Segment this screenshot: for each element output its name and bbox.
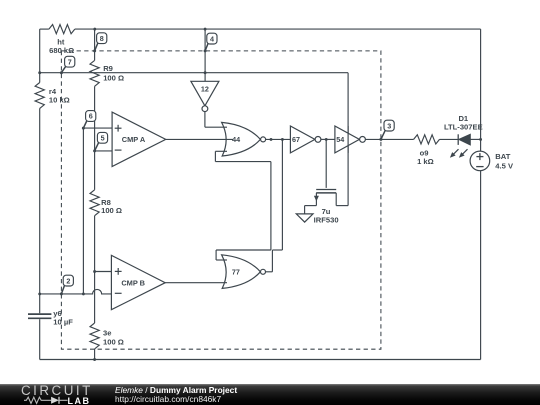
node 6 tag — [82, 111, 96, 130]
junction top rail / inverter-12 input — [204, 28, 207, 31]
wire CMP B inverting input y=293.9 with hop over x=94.6 — [40, 289, 112, 294]
wire CMP A output to gate 44 — [166, 138, 233, 140]
svg-text:44: 44 — [232, 135, 240, 144]
wire inverter 54 output to resistor o9 — [365, 138, 413, 140]
wire node-8 branch x=94.6 (R9 top lead) — [94, 29, 96, 60]
resistor R8 100 ohm (vertical) — [90, 190, 99, 216]
resistor R9 100 ohm (vertical, crosses y=72.7 rail) — [90, 60, 99, 86]
CMP B minus input marker — [115, 292, 122, 294]
wire gate-44 lower input stub y=151.3 — [215, 150, 227, 152]
junction gate-44 output net dot A — [270, 138, 273, 141]
wire LED D1 to right rail — [470, 138, 480, 140]
svg-text:12: 12 — [201, 84, 209, 93]
wire 3e to bottom rail x=94.6 — [94, 349, 96, 360]
node 2 tag — [60, 275, 74, 295]
svg-text:R9: R9 — [103, 64, 113, 73]
battery minus marker — [476, 166, 483, 168]
inverter 54 — [335, 126, 360, 153]
junction left rail / y=72.7 rail — [38, 71, 41, 74]
wire CMP A noninverting input y=128.1 — [83, 127, 112, 129]
dashed module boundary box — [61, 51, 381, 349]
CMP A plus input marker — [115, 125, 122, 132]
junction inverter-67 output / MOSFET gate — [325, 138, 328, 141]
junction y=72.7 rail / inverter-12 input — [204, 71, 207, 74]
svg-text:3e: 3e — [103, 329, 111, 338]
resistor r4 10k (left vertical) — [35, 83, 44, 109]
wire CMP B noninverting input y=271.5 — [95, 271, 112, 273]
resistor 3e 100 ohm (vertical) — [90, 323, 99, 349]
svg-text:680 kΩ: 680 kΩ — [49, 46, 74, 55]
wire inverter 67 to inverter 54 — [321, 138, 335, 140]
svg-text:10 µF: 10 µF — [53, 317, 73, 326]
svg-text:100 Ω: 100 Ω — [103, 338, 124, 347]
wire bottom rail y=359.5 — [40, 359, 481, 361]
resistor o9 1k (horizontal) — [414, 135, 440, 144]
svg-text:100 Ω: 100 Ω — [101, 206, 122, 215]
wire right rail x=480.6 — [480, 29, 482, 359]
wire gate output to MOSFET gate x=326.2 — [325, 139, 327, 188]
wire left rail x=39.7 — [39, 29, 41, 359]
wire inverter-12 input x=205.1 — [204, 29, 206, 81]
CMP A minus input marker — [115, 149, 122, 151]
wire feedback from gate-44 input: down-right-down to gate-77 region — [215, 151, 271, 260]
resistor ht 680k (top horizontal) — [49, 25, 75, 34]
junction left rail / CMP B inverting net — [38, 292, 41, 295]
wire R9 to R8 segment x=94.6 — [94, 86, 96, 190]
wire MOSFET drain rail crossing inverter 54 — [347, 126, 349, 153]
inverter 54 output bubble — [360, 137, 366, 143]
wire R8 to 3e segment x=94.6 — [94, 216, 96, 323]
transistor Q1 channel bar — [316, 192, 336, 194]
gate 77 output bubble — [261, 269, 266, 274]
capacitor y6 10uF — [28, 314, 51, 318]
LED emission arrow 2 — [459, 149, 468, 158]
op-amp CMP B — [111, 255, 165, 309]
junction node-6 vertical / CMP B inverting net — [82, 292, 85, 295]
svg-text:CMP A: CMP A — [122, 135, 146, 144]
inverter 67 output bubble — [315, 137, 321, 143]
inverter 12 output bubble — [202, 106, 208, 112]
svg-text:3: 3 — [387, 121, 391, 130]
node 7 tag — [60, 56, 75, 74]
ground symbol — [296, 214, 313, 222]
wire second rail y=72.7 — [40, 72, 348, 74]
LED D1 LTL-307EE (cathode bar, pointing left) — [458, 134, 470, 145]
junction 3e / bottom rail — [93, 358, 96, 361]
inverter 67 — [290, 126, 315, 153]
wire MOSFET source to ground — [305, 193, 317, 214]
node 8 tag — [93, 33, 107, 53]
svg-text:100 Ω: 100 Ω — [103, 73, 124, 82]
svg-text:1 kΩ: 1 kΩ — [417, 157, 434, 166]
svg-text:7: 7 — [68, 57, 72, 66]
svg-text:BAT: BAT — [495, 152, 510, 161]
inverter 12 (pointing down) — [191, 81, 219, 106]
battery plus marker — [476, 153, 483, 160]
wire inverter-12 output to gate 44 top input — [205, 112, 227, 128]
nor gate 77 — [222, 255, 261, 289]
node 5 tag — [93, 132, 108, 152]
svg-text:67: 67 — [292, 135, 300, 144]
svg-text:IRF530: IRF530 — [314, 215, 339, 224]
junction gate-44 output net dot B — [281, 138, 284, 141]
junction LED / right rail — [479, 138, 482, 141]
wire gate-77 output feedback up to gate-44 output net — [266, 139, 283, 271]
CMP B plus input marker — [115, 268, 122, 275]
wire CMP B output to gate 77 — [165, 282, 227, 284]
svg-text:4: 4 — [210, 34, 214, 43]
svg-text:54: 54 — [336, 135, 344, 144]
node 4 tag — [204, 33, 217, 52]
nor gate 44 — [222, 122, 261, 156]
junction top rail / R9 — [93, 28, 96, 31]
svg-text:CMP B: CMP B — [121, 279, 145, 288]
svg-text:2: 2 — [66, 276, 70, 285]
wire resistor o9 to LED D1 — [440, 138, 459, 140]
wire CMP A inverting input y=150.9 — [95, 150, 113, 152]
svg-text:5: 5 — [101, 134, 105, 143]
transistor Q1 source arrow — [314, 196, 319, 202]
wire top rail y=29 — [40, 28, 481, 30]
svg-text:8: 8 — [100, 34, 104, 43]
wire gate-44 output to inverter 67 y=139.4 — [266, 138, 291, 140]
wire MOSFET drain to y=72.7 rail x=348.1 — [336, 73, 348, 206]
svg-text:6: 6 — [89, 112, 93, 121]
gate 44 output bubble — [261, 137, 266, 142]
op-amp CMP A — [112, 112, 166, 166]
junction CMP B noninverting input / x=94.6 — [93, 270, 96, 273]
svg-text:LTL-307EE: LTL-307EE — [444, 123, 483, 132]
svg-text:10 kΩ: 10 kΩ — [49, 96, 70, 105]
svg-text:4.5 V: 4.5 V — [495, 162, 514, 171]
svg-text:77: 77 — [232, 268, 240, 277]
transistor Q1 NMOS IRF530 gate bar — [316, 189, 336, 191]
battery BAT 4.5V — [470, 151, 490, 171]
node 3 tag — [379, 120, 394, 141]
LED emission arrow 1 — [450, 149, 459, 158]
wire node-6 vertical x=83.4 — [82, 128, 84, 294]
